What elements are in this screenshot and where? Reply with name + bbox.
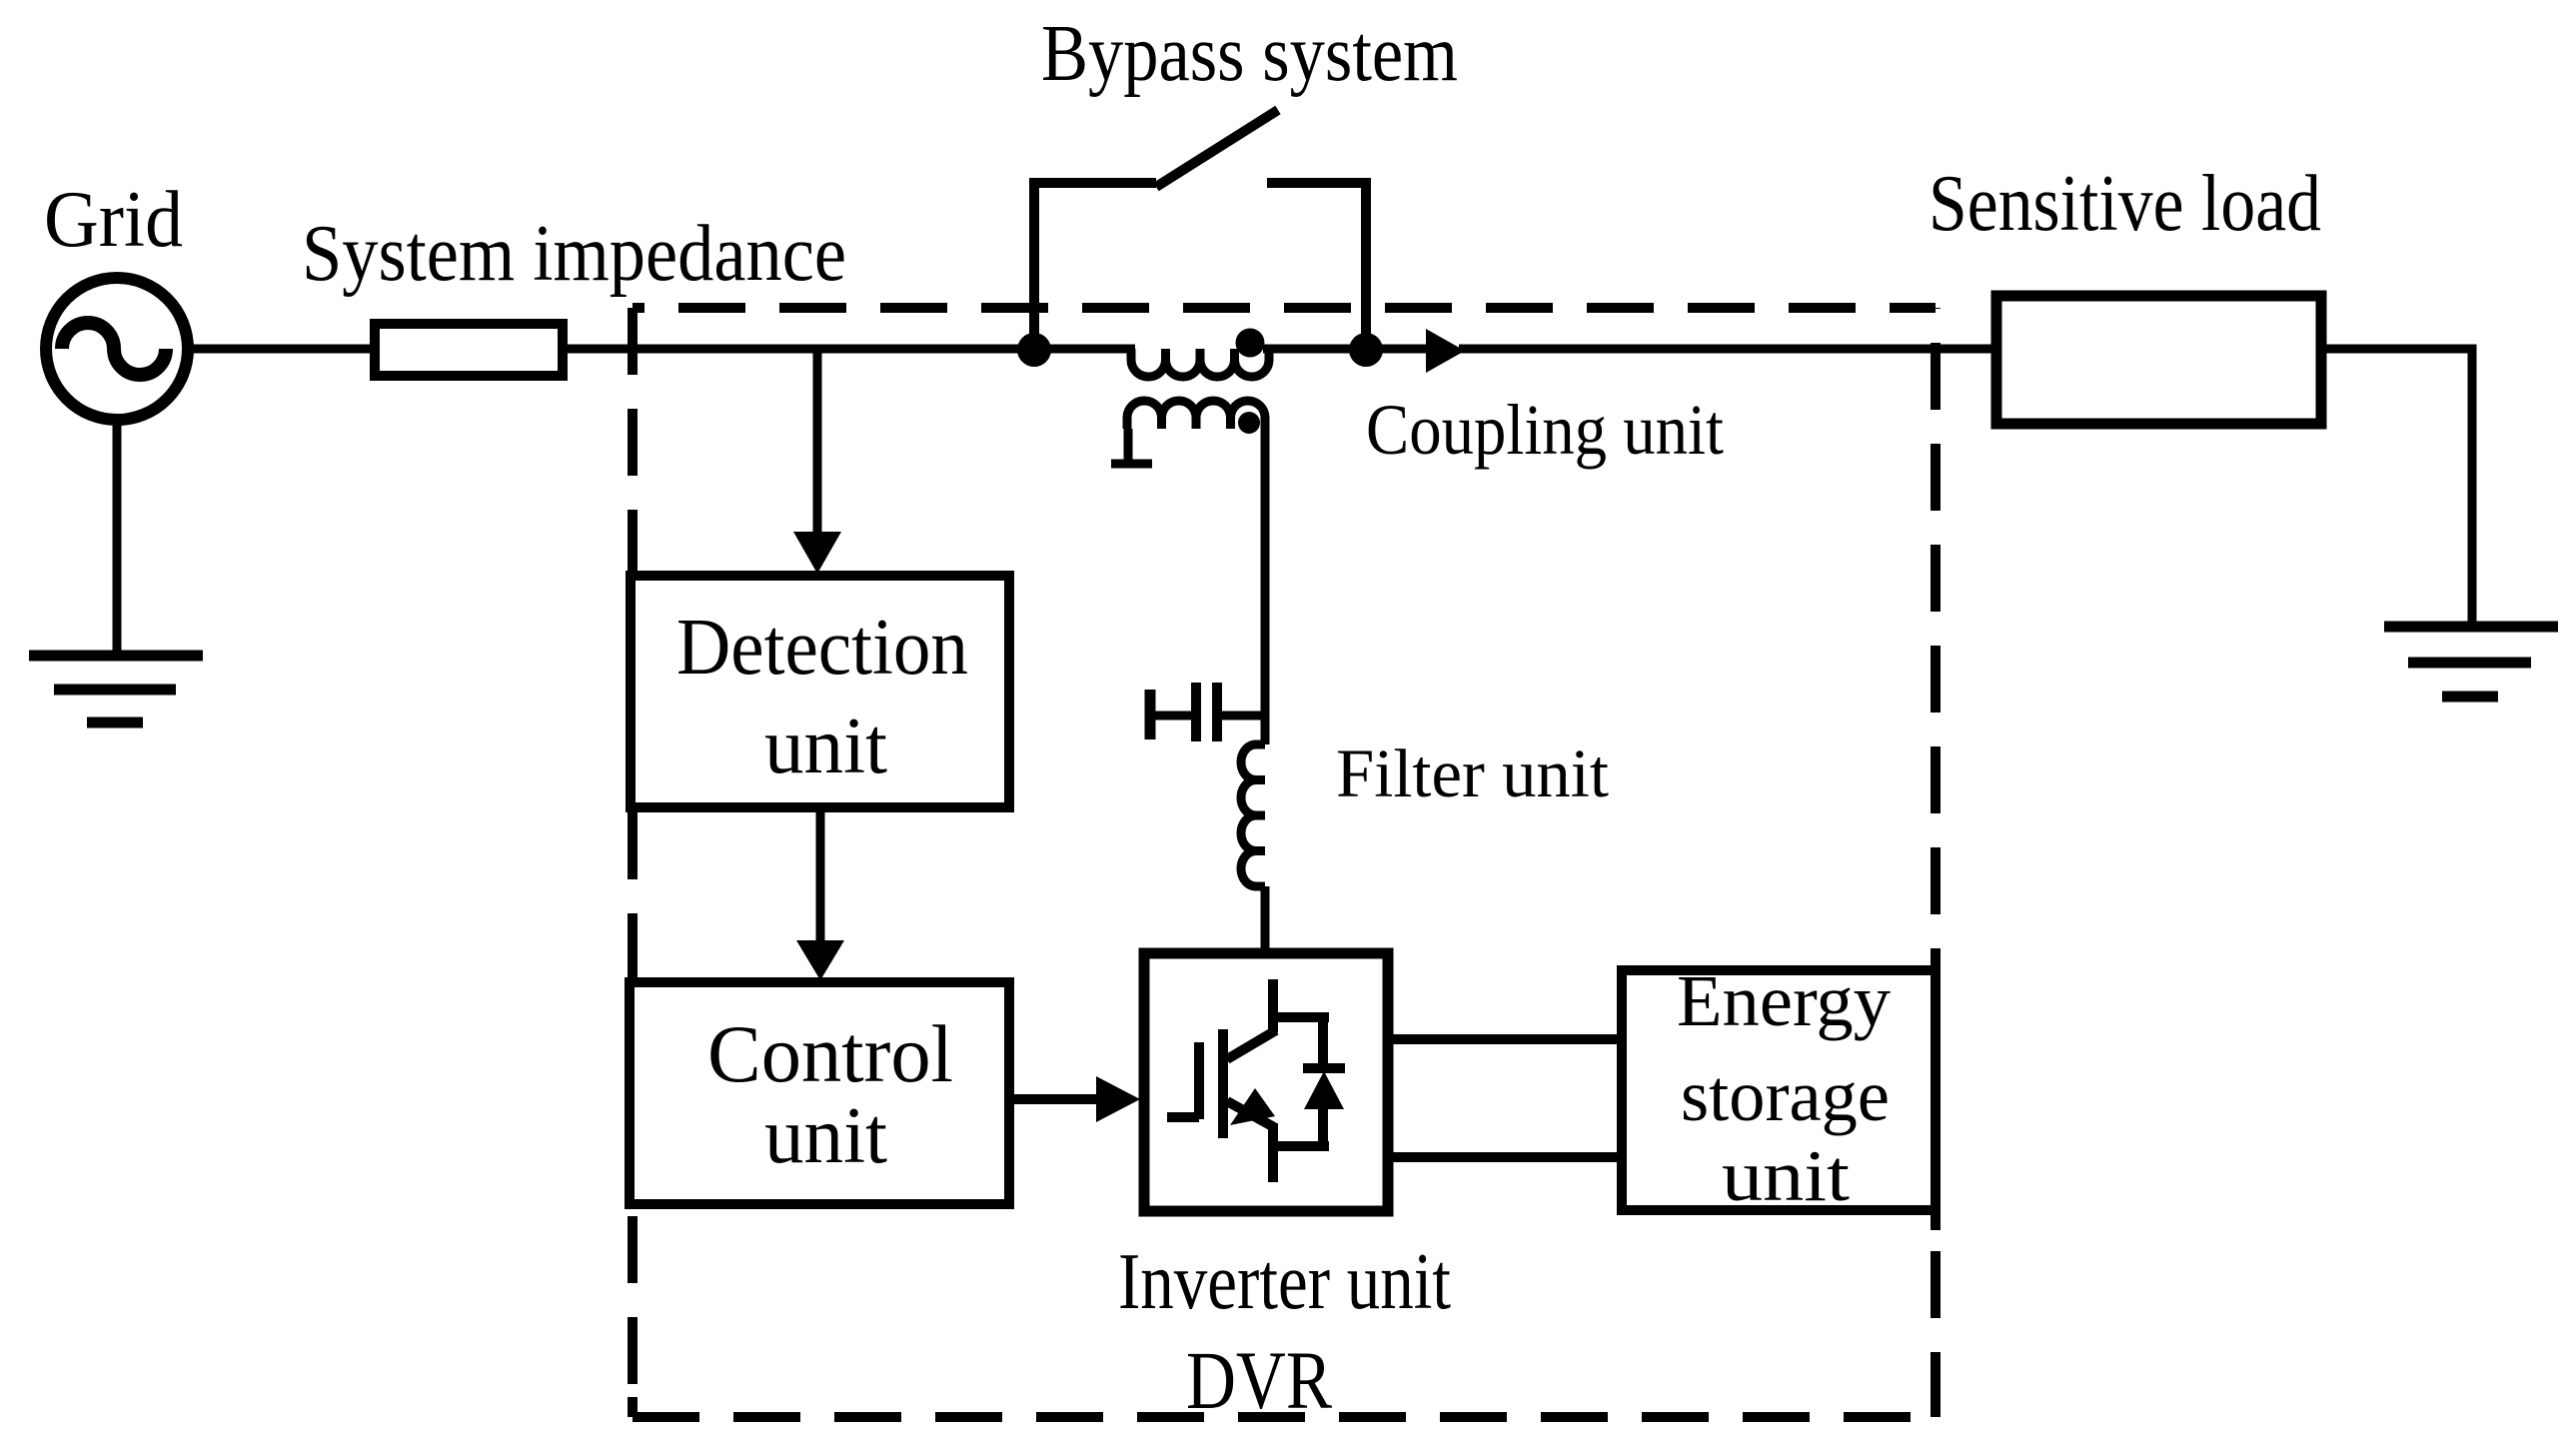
diode D1 antiparallel: [1268, 1017, 1345, 1146]
transistor Q1 IGBT: [1167, 979, 1329, 1182]
ground GND1 at grid: [29, 656, 203, 723]
DVR enclosure dashed box: [633, 308, 1935, 1417]
svg-text:unit: unit: [1722, 1135, 1850, 1216]
svg-text:storage: storage: [1681, 1055, 1890, 1136]
wire W10 control to inverter with arrowhead: [1009, 1076, 1140, 1122]
node N1 bypass left junction: [1017, 333, 1051, 367]
Q1 emitter arrowhead: [1230, 1088, 1275, 1125]
current direction arrow: [1426, 329, 1465, 373]
wire W8 line tap down to detection with arrowhead: [793, 349, 841, 574]
wire W6 secondary down to filter: [1261, 429, 1270, 744]
inductor L1 filter: [1241, 744, 1265, 886]
wire W4 arrow to sensitive load: [1459, 345, 1996, 354]
transformer T1 secondary winding: [1127, 401, 1265, 429]
label Detection unit: [676, 604, 968, 790]
T1 primary polarity dot: [1236, 329, 1265, 358]
svg-text:Energy: Energy: [1677, 960, 1892, 1041]
wire W7 inductor to inverter: [1261, 886, 1270, 953]
svg-text:DVR: DVR: [1186, 1334, 1333, 1426]
ground GND2 at load: [2384, 627, 2558, 697]
svg-text:Coupling unit: Coupling unit: [1366, 390, 1724, 470]
T1 secondary polarity dot: [1238, 412, 1260, 434]
svg-text:System impedance: System impedance: [302, 210, 846, 298]
svg-text:Filter unit: Filter unit: [1336, 735, 1609, 811]
svg-text:Control: Control: [707, 1008, 953, 1099]
svg-text:Inverter unit: Inverter unit: [1118, 1238, 1451, 1326]
control unit box U2: [630, 982, 1009, 1204]
svg-text:unit: unit: [764, 1092, 887, 1180]
wire W13 load to ground corner: [2321, 349, 2472, 627]
svg-text:Bypass system: Bypass system: [1041, 10, 1458, 98]
sensitive load box RL1: [1996, 296, 2321, 424]
wire W11 inverter to storage top: [1388, 1034, 1622, 1044]
bypass switch S1: [1034, 110, 1366, 350]
inverter unit box U3: [1144, 953, 1388, 1211]
wire W9 detection to control with arrowhead: [796, 807, 844, 980]
svg-text:unit: unit: [764, 703, 887, 790]
T1 secondary left terminal stub: [1111, 429, 1152, 464]
wire W12 inverter to storage bottom: [1388, 1152, 1622, 1162]
AC grid source G1: [46, 278, 188, 420]
transformer T1 primary winding: [1131, 349, 1269, 377]
resistor Z1 system impedance: [375, 324, 563, 376]
node N2 bypass right junction: [1349, 333, 1383, 367]
svg-text:Grid: Grid: [44, 176, 183, 264]
svg-text:Sensitive load: Sensitive load: [1929, 160, 2321, 248]
energy storage unit box U4: [1622, 952, 1935, 1230]
wire W3 transformer to line arrow: [1263, 345, 1426, 354]
label Control unit: [707, 1008, 953, 1180]
wire W2 resistor to coupling transformer: [568, 345, 1135, 354]
capacitor C1 filter branch: [1150, 683, 1265, 741]
wire W5 grid to ground: [113, 414, 122, 652]
svg-text:Detection: Detection: [676, 604, 968, 692]
detection unit box U1: [631, 576, 1009, 807]
wire W1 grid to resistor: [186, 345, 370, 354]
label Energy storage unit: [1677, 960, 1892, 1216]
